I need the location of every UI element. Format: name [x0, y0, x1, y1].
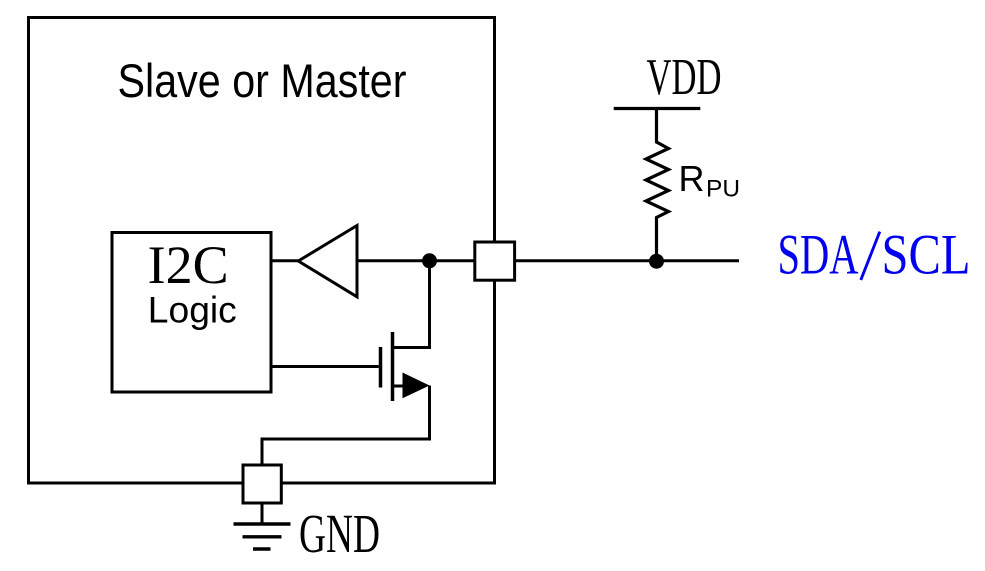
ground symbol	[234, 524, 291, 549]
wire: node down to MOSFET drain	[393, 261, 430, 348]
I/O pad (square on box right edge)	[475, 242, 515, 280]
svg-text:VDD: VDD	[647, 49, 722, 106]
svg-text:I2C: I2C	[148, 235, 229, 295]
wire: I2C logic to gate	[271, 365, 379, 368]
svg-text:R: R	[679, 158, 705, 199]
wire: source down, left, down to GND pad	[262, 386, 430, 467]
svg-text:GND: GND	[299, 503, 380, 564]
transistor Q1 channel bar	[391, 332, 395, 401]
source arrow (filled)	[403, 373, 430, 399]
source stub	[393, 385, 405, 388]
resistor R_PU (zigzag)	[646, 109, 669, 262]
wire: I2C logic to input buffer tip	[271, 259, 300, 262]
input buffer (triangle)	[298, 226, 357, 297]
GND stub	[261, 503, 264, 524]
I2C Logic block U1	[112, 233, 271, 393]
svg-text:PU: PU	[706, 176, 740, 203]
chip outline box (Slave or Master)	[29, 18, 495, 484]
svg-text:Slave or Master: Slave or Master	[118, 55, 407, 108]
svg-text:SCL: SCL	[882, 224, 971, 287]
VDD supply bar	[614, 107, 701, 110]
label slash of SDA/SCL	[861, 232, 880, 280]
wire: buffer output to pad, through node	[357, 259, 475, 262]
junction node A (dot)	[422, 253, 437, 268]
wire: pad to SDA/SCL line	[515, 259, 739, 262]
junction node B (dot at resistor)	[649, 254, 664, 269]
transistor Q1 gate bar	[379, 347, 383, 388]
svg-text:SDA: SDA	[778, 224, 859, 287]
svg-text:Logic: Logic	[148, 290, 237, 331]
GND pad (square on box bottom edge)	[243, 465, 281, 503]
